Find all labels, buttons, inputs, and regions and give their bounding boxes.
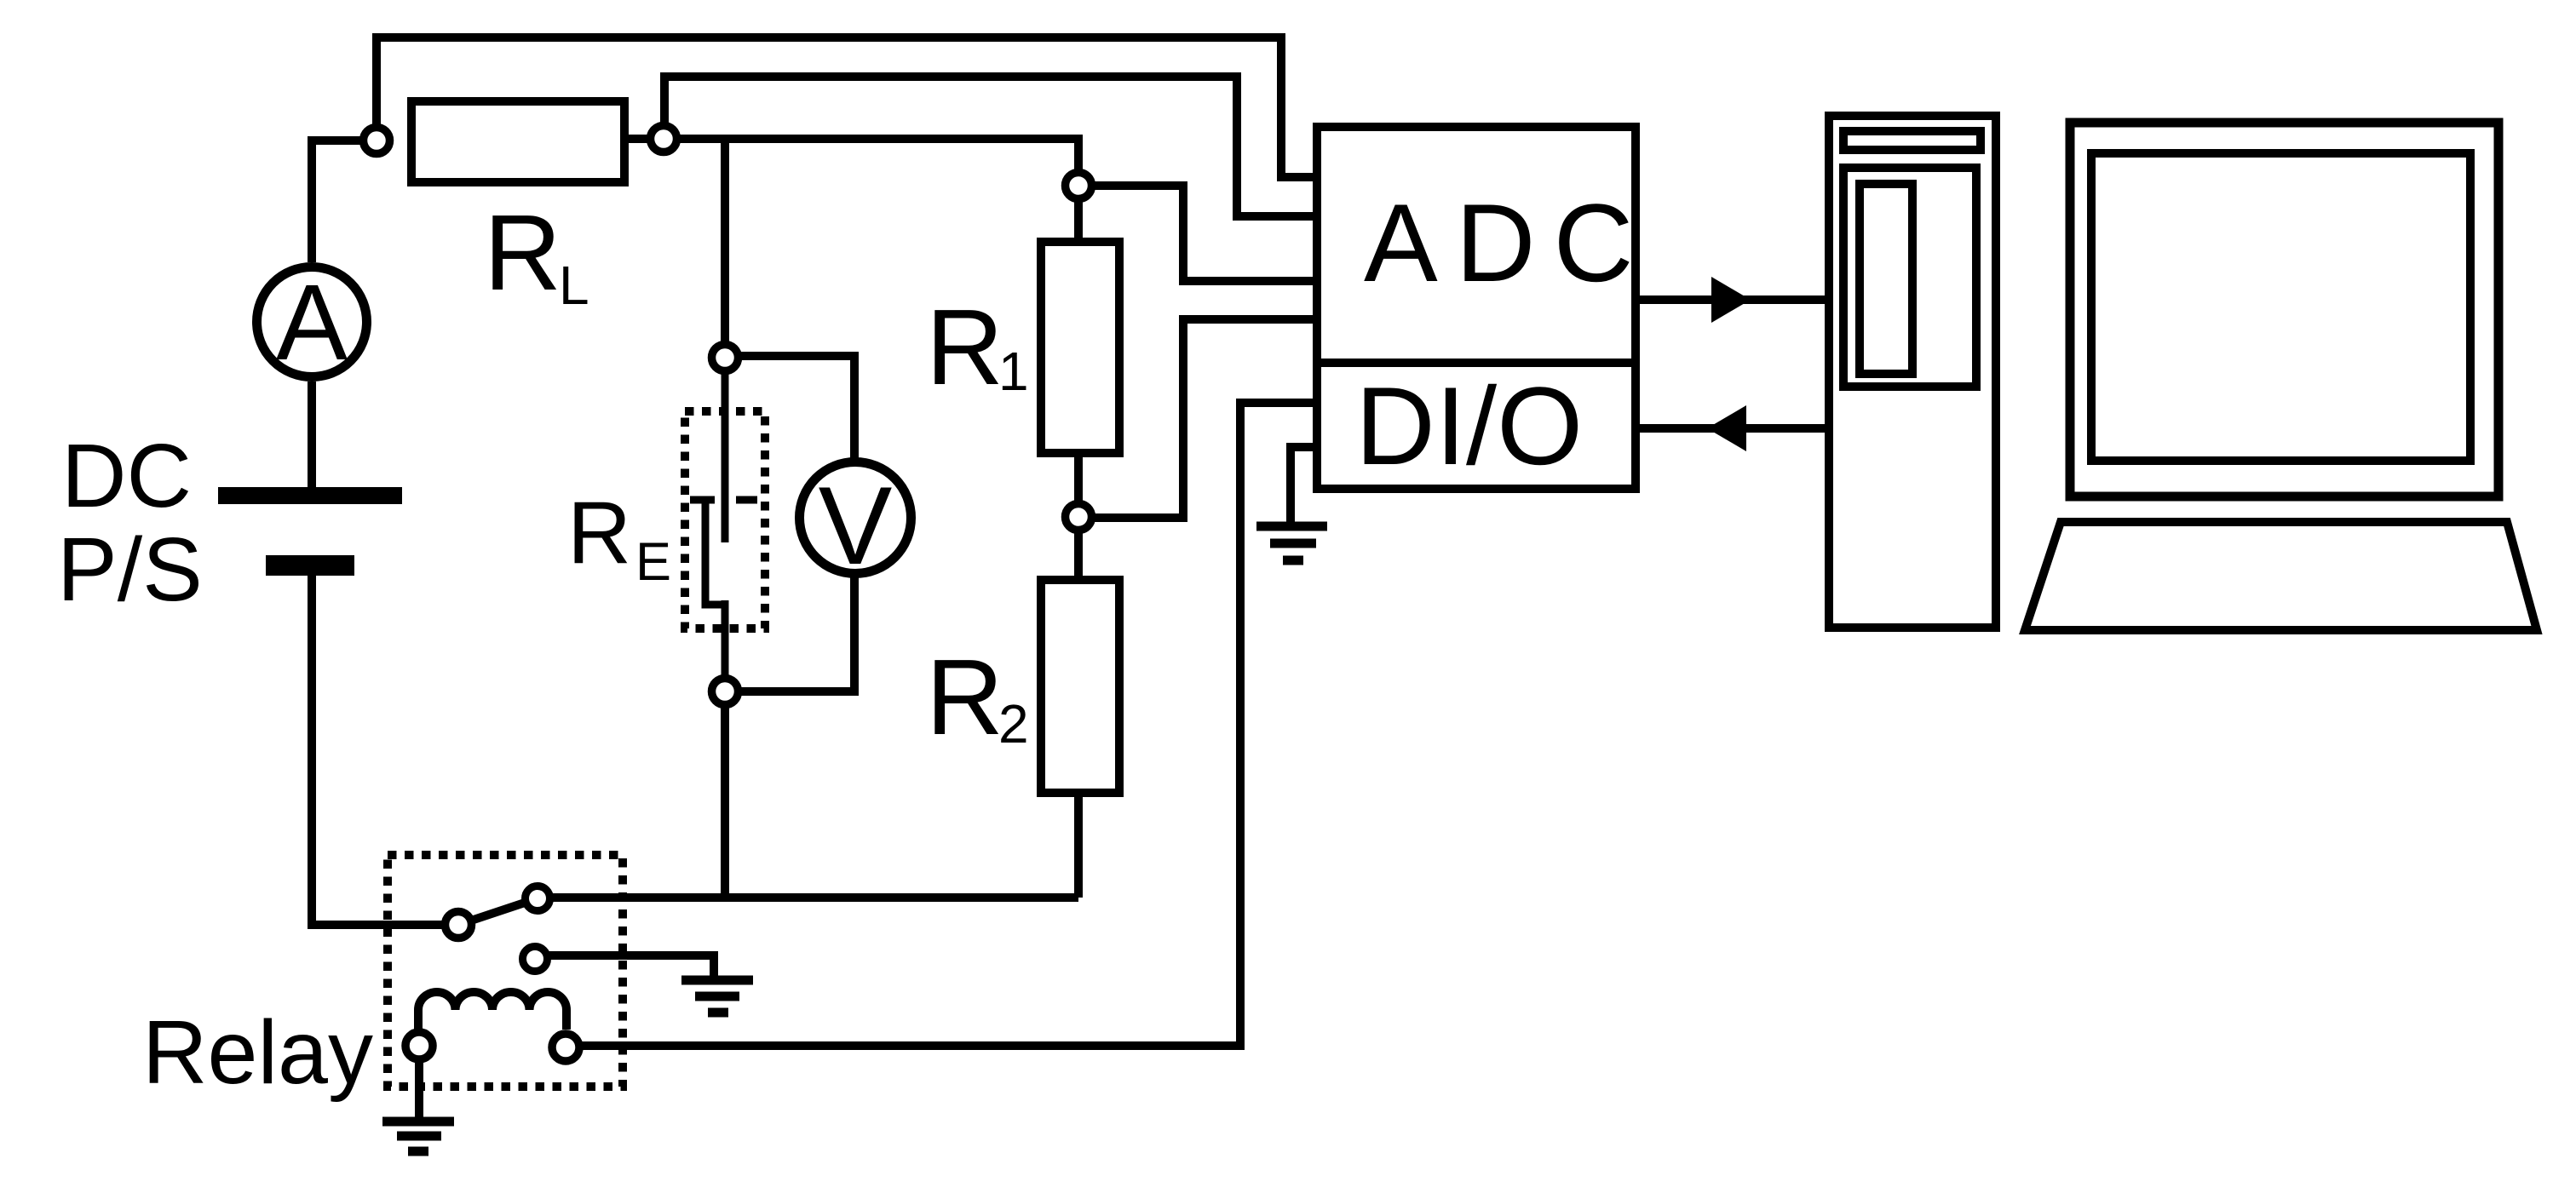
svg-text:2: 2: [998, 693, 1029, 754]
svg-text:V: V: [819, 463, 893, 588]
svg-text:DC: DC: [61, 426, 192, 526]
svg-text:R: R: [484, 192, 561, 313]
svg-text:R: R: [926, 637, 1003, 757]
svg-text:ADC: ADC: [1364, 181, 1651, 305]
svg-text:L: L: [559, 255, 589, 316]
svg-text:R: R: [567, 484, 631, 582]
svg-text:P/S: P/S: [57, 519, 203, 620]
svg-text:R: R: [926, 287, 1003, 407]
svg-text:Relay: Relay: [142, 1002, 373, 1103]
svg-text:DI/O: DI/O: [1355, 364, 1583, 488]
svg-text:A: A: [276, 262, 348, 382]
svg-text:1: 1: [998, 341, 1029, 402]
svg-text:E: E: [635, 532, 671, 592]
